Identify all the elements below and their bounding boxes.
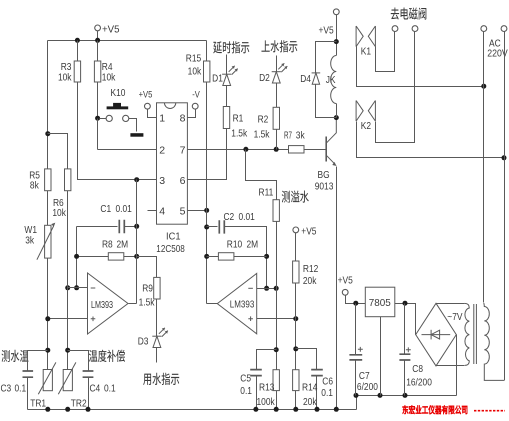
wire C8 to gnd (404, 361, 406, 396)
LED D1 (222, 66, 238, 86)
wire to IC pin2 (98, 149, 157, 151)
wire R9 to D3 (156, 299, 158, 337)
svg-text:0.01: 0.01 (239, 211, 255, 223)
wire bridge to gnd (456, 335, 458, 396)
wire D2 top (276, 56, 278, 72)
terminal +V5 top supply (95, 25, 101, 31)
wire C1 right (125, 226, 137, 228)
svg-text:0.1: 0.1 (321, 387, 333, 399)
wire D4 bottom (316, 85, 337, 118)
svg-text:R2: R2 (258, 114, 269, 126)
wire C2 right down (225, 227, 267, 289)
capacitor C3 (23, 371, 34, 377)
svg-text:16/200: 16/200 (406, 376, 432, 388)
junction minus input R6 line (65, 285, 70, 290)
svg-text:1: 1 (159, 113, 165, 125)
svg-text:0.1: 0.1 (240, 385, 252, 397)
op-amp IC1 12C508 body (157, 103, 188, 224)
wire minus2 node down to R13 (276, 289, 278, 370)
terminal +V5 comparator2 (293, 227, 299, 233)
wire comparator1 plus input (48, 318, 88, 320)
svg-text:6: 6 (180, 175, 186, 187)
wire R4 to K10 (97, 83, 99, 119)
junction bus C6 (315, 407, 320, 412)
wire pin8 to -V (188, 110, 196, 118)
wire plus2 input (257, 318, 296, 320)
svg-text:K2: K2 (361, 120, 371, 132)
wire K2 right to valve terminal 2 (376, 32, 415, 143)
svg-text:-V: -V (192, 89, 200, 100)
junction minus input C1 bus (74, 285, 79, 290)
resistor R3 (74, 61, 80, 82)
wire top supply rail (48, 40, 207, 42)
resistor R10 (218, 253, 234, 260)
wire AC left upper (483, 32, 485, 87)
junction C2 left (204, 225, 209, 230)
wire K1 left to AC line (357, 47, 484, 87)
wire +V5 terminal to top rail (97, 31, 99, 41)
svg-text:LM393: LM393 (91, 300, 113, 311)
svg-text:TR2: TR2 (71, 397, 87, 409)
wire emitter to ground bus (336, 167, 338, 410)
wire R3 top (77, 41, 79, 61)
terminal AC left (481, 26, 487, 32)
svg-text:C5: C5 (240, 372, 251, 384)
wire D2 to R2 (276, 83, 278, 108)
wire to C7 (355, 304, 357, 355)
wire AC right upper (504, 32, 506, 158)
wire pin6 to R1 (188, 129, 227, 180)
wire to D4 (316, 42, 337, 73)
wire K2 left to AC right line (357, 122, 505, 158)
junction gnd C7 (354, 393, 359, 398)
watermark company name (402, 405, 467, 414)
junction R10 left (204, 254, 209, 259)
svg-text:C8: C8 (412, 363, 423, 375)
terminal valve 2 (412, 26, 418, 32)
wire C1/R8 left bus (76, 227, 78, 288)
resistor R15 (204, 61, 210, 82)
junction bus R13 (274, 407, 279, 412)
LED D2 (272, 63, 288, 83)
resistor R11 (273, 200, 279, 222)
wire to C8 (404, 304, 406, 355)
svg-text:+V5: +V5 (338, 274, 353, 286)
resistor R9 (154, 277, 160, 299)
wire C1 left (77, 226, 118, 228)
svg-text:JK: JK (326, 74, 336, 86)
junction R8 right (134, 254, 139, 259)
contact K10 left (106, 115, 112, 121)
svg-text:K1: K1 (361, 45, 371, 57)
junction bus C5 (253, 407, 258, 412)
label 温度补偿 temperature compensation (89, 350, 125, 362)
svg-text:3k: 3k (296, 130, 305, 142)
wire +V5 to 7805 input (346, 296, 366, 304)
wire K10 right to ground bar (129, 119, 137, 132)
resistor R12 (293, 261, 299, 283)
svg-text:R14: R14 (302, 382, 318, 394)
svg-text:+V5: +V5 (139, 89, 153, 100)
capacitor C7 polarized (349, 347, 362, 360)
svg-text:6/200: 6/200 (357, 381, 378, 393)
thermistor TR2 (58, 362, 76, 394)
label 用水指示 water-use indicator (143, 373, 179, 385)
junction pin7 R11 branch (243, 147, 248, 152)
wire minus2 input (257, 288, 277, 290)
terminal +V5 relay (333, 9, 339, 15)
diode D4 (312, 73, 321, 84)
svg-text:20k: 20k (303, 275, 317, 287)
capacitor C1 (119, 220, 124, 233)
wire to C6 (296, 349, 317, 370)
svg-text:7: 7 (180, 144, 186, 156)
junction C4 branch (65, 348, 70, 353)
wire R5 to W1 (47, 191, 49, 226)
svg-text:IC1: IC1 (166, 231, 181, 243)
wire pin7 to R7 (188, 149, 289, 151)
wire R13 to bus (276, 391, 278, 410)
wire R11 to minus2 (276, 222, 278, 289)
wire comparator1 output (129, 303, 137, 305)
junction minus2 C2 (264, 286, 269, 291)
wire left bus upper (47, 41, 49, 169)
resistor R8 (108, 253, 124, 260)
wire ground bus right step (357, 396, 457, 410)
wire pin7 branch to R11 (246, 150, 277, 200)
ground bar K10 (130, 133, 143, 137)
svg-text:R12: R12 (303, 263, 319, 275)
svg-text:TR1: TR1 (30, 397, 46, 409)
junction plus input W1 (45, 316, 50, 321)
svg-text:1.5k: 1.5k (139, 297, 155, 309)
junction bus TR1 (45, 407, 50, 412)
label 上水指示 water-fill indicator (261, 40, 297, 52)
svg-text:D1: D1 (212, 72, 223, 84)
resistor R4 (94, 61, 100, 82)
svg-text:10k: 10k (52, 207, 66, 219)
wire +V5 to pin1 (148, 110, 157, 118)
junction minus2 R11 line (274, 286, 279, 291)
pushbutton K10 cap (113, 103, 121, 107)
wire C4 to bus (88, 378, 90, 410)
relay contact K1 (356, 26, 375, 47)
potentiometer W1 (37, 223, 55, 260)
junction gnd C8 (403, 393, 408, 398)
svg-text:D4: D4 (300, 73, 311, 85)
wire branch to R6 (48, 134, 68, 169)
terminal AC right (501, 26, 507, 32)
resistor R5 (45, 169, 51, 191)
svg-text:0.01: 0.01 (116, 203, 132, 215)
wire pin4 stub (148, 210, 157, 212)
svg-text:10k: 10k (188, 66, 202, 78)
svg-text:1.5k: 1.5k (231, 127, 247, 139)
junction C6 branch (293, 346, 298, 351)
wire R12 to plus2 (295, 283, 297, 319)
svg-text:2: 2 (159, 144, 165, 156)
svg-text:+V5: +V5 (102, 23, 120, 35)
wire to R9 (137, 257, 157, 278)
relay coil JK (331, 56, 337, 104)
junction pin3 wire (134, 177, 139, 182)
svg-text:12C508: 12C508 (156, 243, 185, 255)
svg-text:R10: R10 (227, 239, 243, 251)
resistor R14 (293, 370, 299, 391)
wire C2 left (207, 226, 218, 228)
label 测水温 water temp sense (2, 350, 29, 362)
wire bridge bottom to secondary (437, 365, 465, 367)
junction R8 left (74, 254, 79, 259)
wire K10 left contact (100, 118, 107, 120)
svg-text:1.5k: 1.5k (254, 128, 270, 140)
junction bus TR2 (65, 407, 70, 412)
svg-text:100k: 100k (257, 396, 276, 408)
junction AC right K2 (502, 155, 507, 160)
junction C3 branch (45, 348, 50, 353)
junction C5 branch (274, 347, 279, 352)
junction AC left K1 (481, 84, 486, 89)
wire 7805 output to bridge (395, 304, 416, 335)
wire R6 down to TR2 (67, 191, 69, 370)
junction bus C4 (86, 407, 91, 412)
terminal valve 1 (392, 26, 398, 32)
wire R10 left (207, 256, 219, 258)
wire R2 bottom (276, 130, 278, 150)
resistor R2 (273, 107, 279, 129)
svg-text:10k: 10k (58, 71, 72, 83)
svg-text:R15: R15 (186, 53, 202, 65)
svg-text:K10: K10 (111, 87, 126, 99)
junction gnd 7805 (378, 393, 383, 398)
junction C1 right (134, 224, 139, 229)
capacitor C2 (219, 220, 224, 233)
svg-text:BG: BG (318, 169, 330, 181)
svg-text:D3: D3 (138, 335, 149, 347)
wire W1 down to TR1 (47, 259, 49, 370)
wire +V5 to R12 (295, 233, 297, 261)
capacitor C4 (83, 371, 94, 377)
svg-text:8: 8 (180, 113, 186, 125)
contact K10 right (123, 115, 129, 121)
terminal +V5 supply out (342, 289, 348, 295)
wire K1 right to valve terminal 1 (376, 32, 395, 72)
wire rail to R15 (206, 41, 208, 61)
svg-text:R9: R9 (142, 282, 153, 294)
label 去电磁阀 to solenoid valve (391, 7, 427, 19)
wire D3 anode stub (156, 348, 158, 363)
junction C7 top (353, 301, 358, 306)
svg-text:D2: D2 (259, 72, 270, 84)
wire AC right to primary bottom (504, 158, 506, 381)
junction bus emitter (334, 407, 339, 412)
relay contact K2 (356, 101, 375, 122)
svg-text:R8: R8 (102, 239, 113, 251)
wire ground bus left (28, 409, 357, 411)
junction C8 top (403, 301, 408, 306)
wire K10 node down (97, 119, 99, 150)
svg-text:LM393: LM393 (230, 300, 255, 311)
wire C7 to gnd (355, 360, 357, 396)
label 测溢水 overflow sense (282, 190, 309, 202)
junction top rail R4 (95, 38, 100, 43)
svg-text:7805: 7805 (369, 297, 391, 309)
svg-text:2M: 2M (247, 239, 259, 251)
wire pin5 (188, 210, 207, 212)
junction collector JK (334, 115, 339, 120)
wire comparator1 minus input (68, 287, 88, 289)
svg-text:+V5: +V5 (301, 225, 316, 237)
junction left bus R6 branch (45, 131, 50, 136)
LED D3 (152, 328, 168, 348)
watermark underline marks (474, 410, 505, 412)
svg-text:C1: C1 (100, 203, 111, 215)
resistor R7 (289, 146, 305, 153)
svg-text:9013: 9013 (315, 181, 334, 193)
svg-text:R13: R13 (259, 382, 275, 394)
svg-text:3k: 3k (25, 235, 34, 247)
svg-text:+V5: +V5 (319, 24, 334, 36)
thermistor TR1 (38, 362, 56, 394)
junction top rail R3 (75, 38, 80, 43)
wire R4 top (97, 41, 99, 61)
svg-text:C4: C4 (90, 382, 101, 394)
wire comparator1 output bus (136, 180, 138, 304)
bridge rectifier (416, 303, 457, 366)
svg-text:C6: C6 (322, 376, 333, 388)
wire comparator2 output (207, 303, 218, 305)
svg-text:R7: R7 (284, 130, 292, 142)
wire plus2 to R14 (295, 319, 297, 370)
wire +V5 to JK coil (336, 15, 338, 56)
op-amp U2 LM393 first (88, 273, 129, 334)
wire AC left to transformer primary (483, 87, 485, 303)
wire C5 to bus (256, 376, 258, 410)
terminal -V pin8 (192, 103, 198, 109)
wire R8 right (124, 256, 137, 258)
svg-text:8k: 8k (30, 179, 39, 191)
svg-text:0.1: 0.1 (15, 382, 27, 394)
junction bus R14 (293, 407, 298, 412)
resistor R13 (273, 370, 279, 391)
wire to C5 (257, 350, 277, 370)
svg-text:10k: 10k (102, 71, 116, 83)
op-amp U3 LM393 second (217, 273, 256, 333)
wire bridge top to secondary (437, 303, 465, 305)
resistor R1 (223, 107, 229, 129)
junction JK D4 (334, 39, 339, 44)
wire D1 top (226, 55, 228, 75)
wire R10 right (234, 256, 267, 258)
terminal +V5 pin1 (145, 103, 151, 109)
junction R4 K10 (95, 116, 100, 121)
capacitor C6 (311, 370, 323, 376)
wire C6 to bus (316, 376, 318, 410)
transformer primary (484, 303, 504, 380)
wire R7 to base (305, 149, 327, 151)
transformer secondary (465, 303, 470, 365)
junction plus2 R12 (293, 316, 298, 321)
junction R10 right (264, 254, 269, 259)
transistor BG9013 (326, 118, 336, 166)
svg-text:20k: 20k (303, 396, 317, 408)
svg-text:4: 4 (159, 205, 165, 217)
svg-text:~7V: ~7V (447, 311, 462, 323)
pin numbers IC1 (159, 113, 185, 218)
capacitor C5 (250, 370, 262, 376)
svg-text:2M: 2M (117, 239, 129, 251)
svg-text:C3: C3 (1, 382, 12, 394)
wire R15 to comparator2 output node (206, 83, 208, 304)
wire R8 left (77, 256, 109, 258)
svg-text:R1: R1 (233, 113, 244, 125)
wire 7805 ground pin (380, 317, 382, 396)
wire R14 to bus (295, 391, 297, 410)
svg-text:0.1: 0.1 (104, 382, 116, 394)
wire C3 to bus (27, 378, 29, 410)
resistor R6 (65, 169, 71, 191)
wire to C4 (68, 351, 89, 371)
svg-text:5: 5 (180, 205, 186, 217)
transformer core (474, 304, 477, 364)
junction pin7 R2 (274, 147, 279, 152)
wire R3 to IC pin3 (78, 83, 157, 180)
junction pin5 (204, 208, 209, 213)
svg-text:R11: R11 (259, 187, 274, 199)
wire D1 to R1 (226, 86, 228, 107)
regulator 7805 (365, 287, 395, 317)
svg-text:3: 3 (159, 175, 165, 187)
wire JK coil bottom (336, 104, 338, 118)
capacitor C8 polarized (399, 347, 410, 360)
wire to C3 (28, 351, 48, 371)
label 延时指示 delay indicator (213, 41, 249, 53)
